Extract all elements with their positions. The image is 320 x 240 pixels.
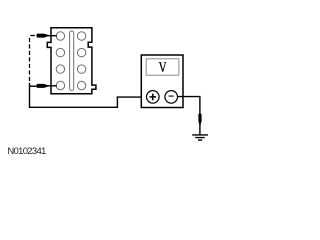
pin 6 (row3 right cavity) xyxy=(77,65,85,73)
figure number label xyxy=(7,146,45,157)
pin 4 (row2 right cavity) xyxy=(77,48,85,56)
probe tip P2 at pin 7 xyxy=(37,84,48,88)
negative terminal xyxy=(165,91,178,104)
wire step up xyxy=(116,97,118,108)
connector C1 body outline xyxy=(47,28,96,94)
minus sign xyxy=(169,95,174,97)
pin 1 (row1 left cavity) xyxy=(56,32,64,40)
wire from probe tip P1 into pin 1 xyxy=(48,35,57,37)
wire from probe tip P2 into pin 7 xyxy=(48,85,57,87)
wire solid vertical run xyxy=(29,83,31,108)
wire into ground symbol xyxy=(199,124,201,135)
probe tip P1 at pin 1 xyxy=(37,34,48,38)
wire dashed horizontal to top probe xyxy=(30,35,35,37)
wire dashed vertical run xyxy=(29,38,31,81)
ground symbol xyxy=(192,135,208,140)
pin 8 (row4 right cavity) xyxy=(77,81,85,89)
voltmeter V label xyxy=(159,62,166,71)
pin 2 (row1 right cavity) xyxy=(77,32,85,40)
positive terminal xyxy=(147,91,160,104)
wire from negative terminal to ground drop xyxy=(177,97,200,114)
voltmeter display window xyxy=(146,59,179,75)
plus sign xyxy=(150,94,157,101)
pin 3 (row2 left cavity) xyxy=(56,48,64,56)
pin 7 (row4 left cavity) xyxy=(56,81,64,89)
voltmeter V1 case xyxy=(141,55,183,108)
wire bottom horizontal run xyxy=(29,106,118,108)
connector center rib xyxy=(70,31,74,91)
pin 5 (row3 left cavity) xyxy=(56,65,64,73)
wire to voltmeter positive terminal xyxy=(117,96,147,98)
wire from junction to bottom probe xyxy=(30,85,38,87)
probe tip P3 on ground lead xyxy=(198,114,201,125)
